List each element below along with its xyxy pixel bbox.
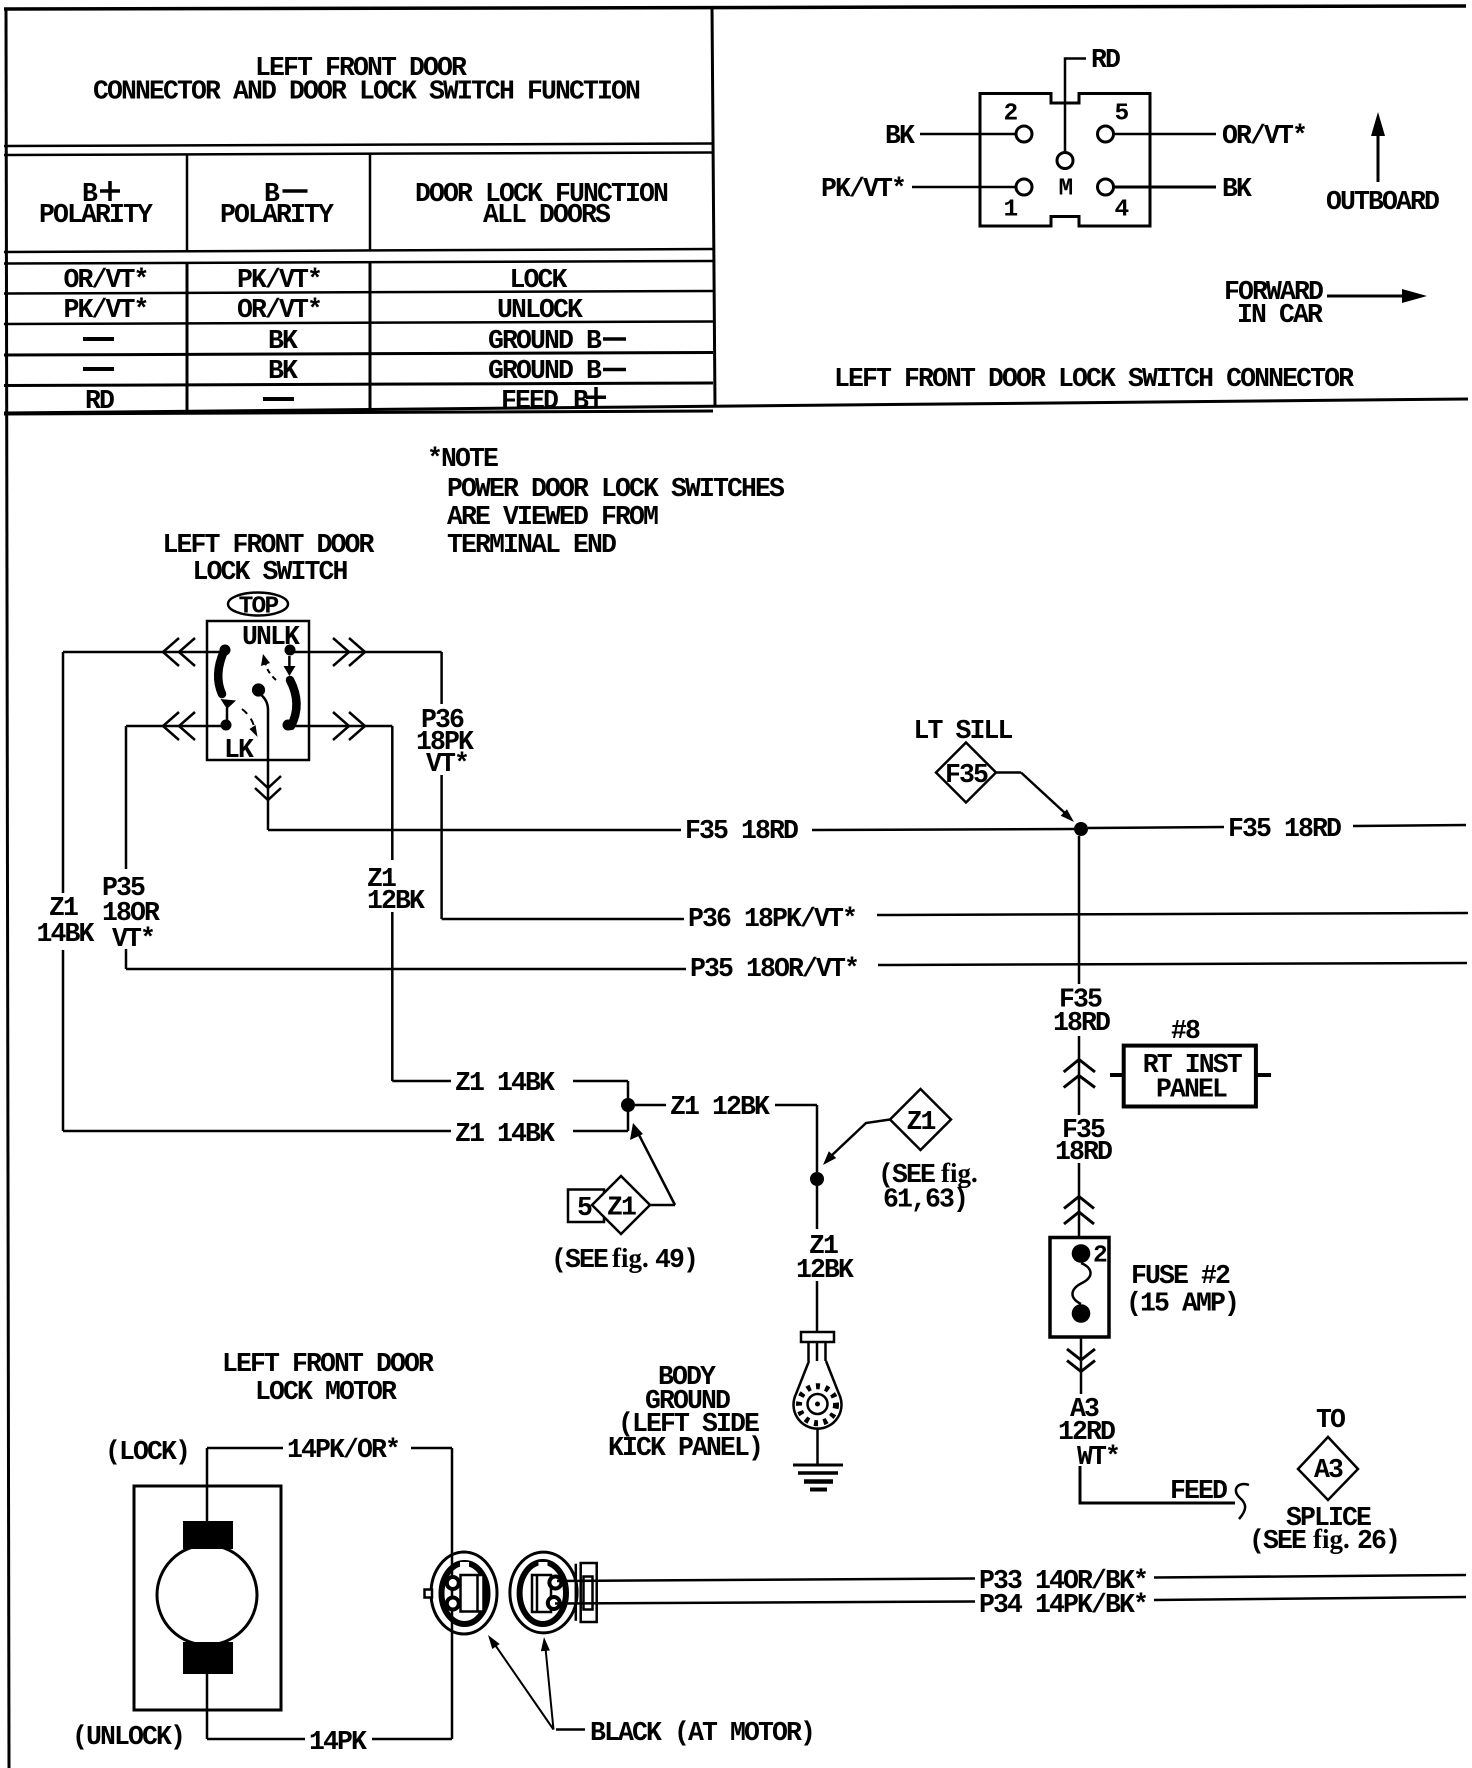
svg-text:POLARITY: POLARITY xyxy=(39,200,153,230)
svg-text:12BK: 12BK xyxy=(367,886,425,916)
svg-text:TO: TO xyxy=(1316,1405,1345,1435)
wire P33 14OR/BK xyxy=(557,1579,975,1582)
svg-text:OUTBOARD: OUTBOARD xyxy=(1326,187,1439,217)
connector chevrons right upper xyxy=(333,638,349,666)
switch common pin xyxy=(252,683,265,696)
svg-text:12BK: 12BK xyxy=(796,1255,854,1285)
svg-text:Z1 12BK: Z1 12BK xyxy=(670,1092,770,1122)
wire upper-right P36 xyxy=(294,651,442,654)
svg-text:M: M xyxy=(1059,176,1073,203)
motor connector bracket xyxy=(575,1564,578,1621)
wire RD to pin M xyxy=(1065,59,1086,153)
motor connector right xyxy=(510,1552,577,1633)
pin 2 circle xyxy=(1016,126,1032,142)
svg-text:14BK: 14BK xyxy=(36,919,94,949)
svg-text:F35 18RD: F35 18RD xyxy=(1228,814,1341,844)
svg-text:B: B xyxy=(573,386,589,416)
svg-text:OR/VT*: OR/VT* xyxy=(237,295,321,325)
fuse element xyxy=(1072,1263,1090,1304)
svg-text:14PK/OR*: 14PK/OR* xyxy=(287,1435,399,1465)
chevrons inline connector xyxy=(1064,1060,1095,1073)
switch left contact bar xyxy=(218,651,224,694)
svg-text:VT*: VT* xyxy=(426,749,468,779)
svg-text:RD: RD xyxy=(1091,45,1120,75)
svg-text:IN CAR: IN CAR xyxy=(1237,300,1323,330)
svg-text:61,63): 61,63) xyxy=(883,1185,967,1215)
svg-text:LT SILL: LT SILL xyxy=(914,716,1013,746)
svg-text:CONNECTOR AND DOOR LOCK SWITCH: CONNECTOR AND DOOR LOCK SWITCH FUNCTION xyxy=(93,77,640,107)
wire P36 18PK/VT horizontal xyxy=(442,918,684,921)
svg-text:14PK: 14PK xyxy=(309,1727,367,1757)
svg-text:WT*: WT* xyxy=(1077,1442,1119,1472)
switch pin upper-right xyxy=(285,645,296,656)
wire Z1 14BK lower xyxy=(63,1130,451,1133)
motor connector left xyxy=(431,1552,497,1634)
connector symbol Z1 diamond xyxy=(890,1089,951,1150)
svg-text:POLARITY: POLARITY xyxy=(220,200,334,230)
svg-text:GROUND B: GROUND B xyxy=(488,326,602,356)
wire 14PK/OR lock lead xyxy=(206,1448,209,1521)
svg-text:(15 AMP): (15 AMP) xyxy=(1126,1289,1238,1319)
table row 4 GROUND B- xyxy=(83,367,114,371)
Z1 leader arrow xyxy=(830,1120,890,1158)
svg-text:LEFT FRONT DOOR: LEFT FRONT DOOR xyxy=(222,1349,434,1379)
table title bottom double rule xyxy=(4,144,713,147)
pin 4 circle xyxy=(1098,179,1114,195)
svg-text:*NOTE: *NOTE xyxy=(427,444,498,474)
body ground eyelet symbol xyxy=(801,1332,834,1342)
svg-text:PANEL: PANEL xyxy=(1156,1075,1227,1105)
wire BK from pin 4 xyxy=(1114,186,1217,189)
wire Z1 14BK upper xyxy=(392,1080,451,1083)
svg-text:PK/VT*: PK/VT* xyxy=(821,174,905,204)
fuse F2 body xyxy=(1050,1238,1109,1338)
wire OR/VT from pin 5 xyxy=(1114,133,1217,136)
svg-text:BK: BK xyxy=(268,356,298,386)
wire 14PK unlock lead xyxy=(206,1674,209,1739)
svg-text:LEFT FRONT DOOR: LEFT FRONT DOOR xyxy=(163,530,375,560)
pin 1 circle xyxy=(1016,179,1032,195)
svg-text:#8: #8 xyxy=(1171,1016,1200,1046)
wire to fuse xyxy=(1078,1163,1081,1237)
wire below fuse xyxy=(1080,1337,1083,1394)
switch left dashed motion arc xyxy=(242,709,254,726)
wire upper-left to Z1 14BK xyxy=(63,651,220,654)
svg-text:(SEE: (SEE xyxy=(1249,1526,1306,1556)
chevrons below fuse xyxy=(1067,1349,1095,1360)
svg-text:ARE VIEWED FROM: ARE VIEWED FROM xyxy=(447,502,658,532)
page top border xyxy=(4,6,1466,9)
fuse top terminal xyxy=(1072,1244,1091,1263)
svg-text:LOCK MOTOR: LOCK MOTOR xyxy=(255,1377,397,1407)
svg-text:BK: BK xyxy=(268,326,298,356)
svg-text:fig.: fig. xyxy=(941,1158,978,1188)
svg-text:ALL DOORS: ALL DOORS xyxy=(483,200,611,230)
switch right contact bar xyxy=(288,656,291,667)
junction Z1 ground node xyxy=(810,1172,824,1186)
connector chevrons left upper xyxy=(163,638,179,666)
junction Z1 node xyxy=(621,1098,635,1112)
svg-text:BK: BK xyxy=(885,121,915,151)
wire Z1 12BK horizontal xyxy=(635,1104,666,1107)
svg-text:VT*: VT* xyxy=(112,924,154,954)
connector chevrons left lower xyxy=(163,712,179,740)
table header row borders xyxy=(186,154,189,251)
OUTBOARD arrow xyxy=(1377,130,1380,182)
pin 5 circle xyxy=(1098,126,1114,142)
wire F35 18RD vertical xyxy=(1078,836,1081,984)
svg-text:PK/VT*: PK/VT* xyxy=(237,265,321,295)
svg-text:TERMINAL END: TERMINAL END xyxy=(447,530,616,560)
connector chevrons right lower xyxy=(333,712,349,740)
page left border xyxy=(6,8,9,1768)
wire right riser to motor connector xyxy=(451,1448,454,1739)
svg-text:LEFT FRONT DOOR LOCK SWITCH CO: LEFT FRONT DOOR LOCK SWITCH CONNECTOR xyxy=(834,364,1354,394)
table row 3 GROUND B- xyxy=(83,337,114,341)
svg-text:A3: A3 xyxy=(1314,1455,1343,1485)
wire F35 18RD right xyxy=(1088,827,1224,828)
svg-text:BLACK (AT MOTOR): BLACK (AT MOTOR) xyxy=(590,1718,814,1748)
svg-text:5: 5 xyxy=(1115,101,1129,128)
svg-text:FUSE #2: FUSE #2 xyxy=(1131,1261,1230,1291)
svg-text:PK/VT*: PK/VT* xyxy=(63,295,147,325)
svg-text:Z1 14BK: Z1 14BK xyxy=(455,1068,555,1098)
switch common lead below box xyxy=(267,758,270,830)
svg-text:OR/VT*: OR/VT* xyxy=(1222,121,1306,151)
chevrons inline connector 2 xyxy=(1064,1197,1094,1209)
svg-text:F35 18RD: F35 18RD xyxy=(685,816,798,846)
switch pin upper-left xyxy=(220,645,231,656)
wire lower-left P35 xyxy=(126,725,221,728)
motor M1 body xyxy=(134,1486,281,1710)
chevrons below switch xyxy=(255,776,281,788)
svg-text:4: 4 xyxy=(1115,197,1129,224)
svg-text:(SEE: (SEE xyxy=(551,1245,608,1275)
junction F35 node xyxy=(1074,822,1088,836)
svg-text:KICK PANEL): KICK PANEL) xyxy=(608,1433,762,1463)
svg-text:fig.: fig. xyxy=(1313,1524,1350,1554)
svg-text:FEED: FEED xyxy=(1170,1476,1227,1506)
svg-text:TOP: TOP xyxy=(239,594,279,621)
horizontal divider below top panels xyxy=(4,399,1468,413)
FORWARD IN CAR arrow xyxy=(1327,295,1406,298)
svg-text:Z1: Z1 xyxy=(607,1193,636,1223)
wire lower-right Z1 12BK xyxy=(292,725,392,728)
motor armature circle xyxy=(157,1545,257,1645)
svg-text:2: 2 xyxy=(1093,1243,1107,1270)
wire A3 feed xyxy=(1080,1466,1235,1503)
black at motor leader arrows xyxy=(491,1639,554,1730)
svg-text:LOCK SWITCH: LOCK SWITCH xyxy=(193,557,348,587)
svg-text:2: 2 xyxy=(1004,101,1018,128)
svg-text:LOCK: LOCK xyxy=(509,265,567,295)
wire BK to pin 2 xyxy=(920,133,1016,136)
TOP oval xyxy=(228,593,288,616)
svg-text:POWER DOOR LOCK SWITCHES: POWER DOOR LOCK SWITCHES xyxy=(447,474,785,504)
fuse bottom terminal xyxy=(1072,1304,1091,1323)
wire PK/VT to pin 1 xyxy=(912,186,1016,189)
svg-text:1: 1 xyxy=(1004,197,1018,224)
connector body with index notches xyxy=(980,94,1150,227)
svg-text:FEED: FEED xyxy=(501,386,558,416)
connector symbol F35 diamond xyxy=(936,743,996,803)
svg-text:P35 18OR/VT*: P35 18OR/VT* xyxy=(690,954,858,984)
switch common wire down xyxy=(260,694,268,758)
wire Z1 12BK to ground xyxy=(816,1186,819,1229)
svg-text:Z1: Z1 xyxy=(906,1107,935,1137)
svg-text:UNLOCK: UNLOCK xyxy=(497,295,583,325)
svg-text:F35: F35 xyxy=(945,760,988,790)
switch pin lower-left xyxy=(221,720,232,731)
wire P35 18OR/VT horizontal xyxy=(126,968,686,971)
F35 leader arrow xyxy=(996,771,1021,774)
svg-text:18RD: 18RD xyxy=(1055,1137,1112,1167)
motor brush bottom xyxy=(183,1642,233,1674)
svg-text:(UNLOCK): (UNLOCK) xyxy=(72,1722,184,1752)
ground symbol xyxy=(816,1428,819,1464)
svg-text:Z1 14BK: Z1 14BK xyxy=(455,1119,555,1149)
svg-text:P34 14PK/BK*: P34 14PK/BK* xyxy=(979,1590,1147,1620)
svg-text:OR/VT*: OR/VT* xyxy=(63,265,147,295)
svg-text:5: 5 xyxy=(577,1193,592,1223)
svg-text:18RD: 18RD xyxy=(1053,1008,1110,1038)
table column rules xyxy=(186,263,189,412)
wire P34 14PK/BK xyxy=(555,1602,975,1604)
svg-text:26): 26) xyxy=(1357,1526,1399,1556)
switch U1 body xyxy=(207,621,309,760)
svg-text:BK: BK xyxy=(1222,174,1252,204)
svg-text:(LOCK): (LOCK) xyxy=(105,1437,189,1467)
connector symbol 5-Z1 diamond xyxy=(568,1190,604,1223)
vertical divider between table and connector panel xyxy=(712,6,715,407)
wire F35 18RD horizontal xyxy=(268,829,681,832)
switch center dashed motion arc xyxy=(265,662,276,680)
svg-text:P36 18PK/VT*: P36 18PK/VT* xyxy=(688,904,856,934)
table row rules xyxy=(4,291,713,294)
wire break squiggle xyxy=(1236,1484,1249,1519)
svg-text:fig.: fig. xyxy=(612,1243,649,1273)
switch pin lower-right xyxy=(283,720,294,731)
motor brush top xyxy=(183,1521,233,1549)
5-Z1 leader arrow xyxy=(650,1204,675,1207)
pin M circle xyxy=(1057,153,1073,169)
svg-text:49): 49) xyxy=(655,1245,697,1275)
svg-text:RD: RD xyxy=(85,386,114,416)
svg-text:LK: LK xyxy=(224,735,254,765)
svg-text:GROUND B: GROUND B xyxy=(488,356,602,386)
